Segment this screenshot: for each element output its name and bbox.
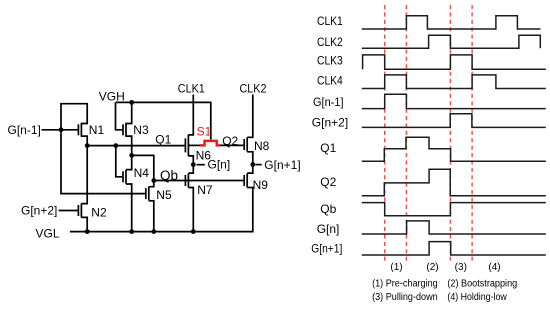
waveform G[n-1] [362, 94, 546, 108]
node G[n+1] junction [250, 162, 255, 167]
svg-text:G[n-1]: G[n-1] [8, 123, 41, 137]
transistor N5 [146, 187, 172, 202]
transistor N8 [244, 138, 269, 154]
wire N6 source to G[n] and N7 drain [188, 156, 193, 173]
node G[n] junction [191, 162, 196, 167]
waveform G[n] [362, 221, 546, 234]
waveform G[n+1] [362, 242, 546, 255]
wire N4 source to VGL [126, 184, 132, 232]
svg-text:Qb: Qb [320, 202, 336, 216]
svg-text:CLK2: CLK2 [240, 81, 267, 95]
waveform G[n+2] [362, 114, 546, 128]
svg-text:G[n+2]: G[n+2] [312, 116, 348, 130]
svg-text:G[n]: G[n] [317, 222, 340, 236]
wire G[n] stub [197, 164, 205, 166]
svg-text:N8: N8 [254, 139, 270, 153]
wire N3 gate to VGH [116, 102, 123, 129]
svg-text:CLK1: CLK1 [317, 14, 343, 28]
node VGL junction at N5 source [151, 229, 156, 234]
svg-text:(3): (3) [455, 262, 467, 273]
svg-text:N7: N7 [197, 183, 213, 197]
svg-text:G[n+1]: G[n+1] [264, 158, 300, 172]
svg-text:CLK4: CLK4 [317, 74, 343, 88]
waveform Q1 [362, 137, 546, 161]
wire N5 source to VGL [149, 201, 154, 232]
waveform Q2 [362, 169, 546, 195]
svg-text:Qb: Qb [160, 168, 178, 183]
transistor N1 [78, 123, 104, 137]
svg-text:CLK2: CLK2 [317, 35, 343, 49]
wire CLK2 to N8 drain [247, 95, 253, 138]
svg-text:CLK3: CLK3 [317, 53, 343, 67]
red dashed marker line (4) start [471, 5, 473, 262]
transistor N4 [123, 166, 149, 184]
svg-text:Q1: Q1 [320, 141, 336, 155]
svg-text:N4: N4 [134, 166, 150, 180]
node N3 source / N4 drain / N5 drain junction [129, 153, 134, 158]
svg-text:N9: N9 [253, 178, 269, 192]
wire G[n+1] stub [255, 164, 261, 166]
svg-text:S1: S1 [197, 124, 212, 138]
red dashed marker line (3) start [449, 5, 451, 262]
svg-text:N1: N1 [89, 123, 105, 137]
switch S1 repair link [200, 141, 220, 146]
red dashed marker line (2) start [405, 5, 407, 262]
transistor N2 [78, 204, 107, 220]
waveform CLK1 [362, 16, 541, 29]
wire N2 drain up to node Q1 [81, 146, 87, 204]
wire VGH rail to S1 drop [116, 102, 211, 139]
red dashed marker line (1) start [384, 5, 386, 262]
waveform CLK2 [362, 35, 541, 48]
svg-text:Q2: Q2 [222, 134, 238, 148]
svg-text:(2): (2) [426, 262, 438, 273]
svg-text:G[n-1]: G[n-1] [313, 95, 344, 109]
node VGL junction at N4 source [129, 229, 134, 234]
node Qb junction on N5 drain [151, 178, 156, 183]
svg-text:(3) Pulling-down: (3) Pulling-down [372, 292, 438, 303]
svg-text:VGL: VGL [36, 226, 60, 240]
wire G[n-1] down-left rail to N5 gate [61, 130, 145, 194]
svg-text:(4) Holding-low: (4) Holding-low [447, 292, 507, 303]
node Q1 junction to N4 gate feed [113, 143, 118, 148]
svg-text:Q1: Q1 [155, 133, 171, 147]
wire node Qb to N7/N9 gates [154, 180, 244, 182]
transistor N9 [244, 174, 268, 192]
transistor N7 [185, 174, 212, 198]
node Q1 junction at N1 source / N2 drain [85, 143, 90, 148]
node VGH junction at N3 drain [129, 100, 134, 105]
wire Q1 down-feed to N4 gate [116, 146, 122, 177]
wire junction to N5 drain [132, 155, 154, 186]
svg-text:(1) Pre-charging: (1) Pre-charging [372, 278, 438, 289]
svg-text:N5: N5 [156, 188, 172, 202]
wire N6 tap to S1 (Q2 left stub) [188, 144, 200, 146]
wire G[n+2] lead to N2 gate [59, 210, 78, 212]
svg-text:(2) Bootstrapping: (2) Bootstrapping [447, 278, 517, 289]
wire N3 source down to node Qb-top [126, 136, 132, 155]
svg-text:G[n+2]: G[n+2] [21, 204, 57, 218]
wire S1 to N8 gate (node Q2) [220, 144, 244, 146]
waveform CLK3 [363, 55, 546, 69]
wire N2 source to VGL [81, 217, 87, 231]
waveform CLK4 [362, 75, 546, 89]
svg-text:N2: N2 [91, 206, 107, 220]
wire node Q1 horizontal to N6 gate [87, 145, 184, 147]
svg-text:N3: N3 [133, 123, 149, 137]
wire N8 source to G[n+1] and N9 drain [247, 152, 253, 173]
wire CLK1 to N6 drain [188, 95, 193, 135]
transistor N6 [185, 135, 211, 163]
svg-text:G[n+1]: G[n+1] [311, 241, 342, 255]
wire G[n-1] lead to N1 gate [42, 129, 78, 131]
wire N7 source to VGL [188, 188, 193, 232]
wire N1 source to node Q1 [81, 136, 87, 146]
wire N9 source to VGL rail [70, 188, 253, 232]
svg-text:Q2: Q2 [320, 175, 336, 189]
node VGL junction at N2 source [85, 229, 90, 234]
svg-text:(1): (1) [390, 262, 402, 273]
svg-text:G[n]: G[n] [208, 158, 231, 172]
node VGL junction at N7 source [191, 229, 196, 234]
wire N4 drain up to junction [126, 155, 132, 169]
wire N3 drain to VGH [126, 102, 132, 123]
node G[n-1] junction [59, 127, 64, 132]
svg-text:CLK1: CLK1 [178, 81, 205, 95]
wire G[n-1] loop to N1 drain [61, 104, 87, 130]
waveform Qb [362, 203, 546, 216]
svg-text:(4): (4) [488, 262, 500, 273]
transistor N3 [123, 123, 149, 137]
